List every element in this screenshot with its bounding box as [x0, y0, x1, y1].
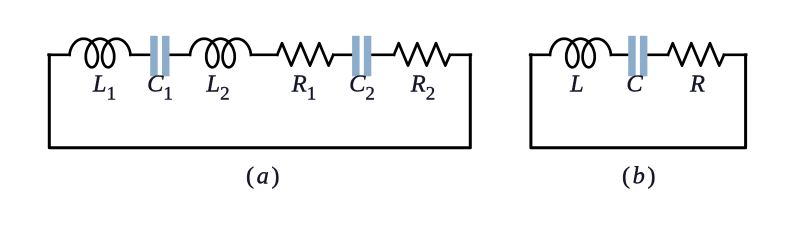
svg-text:(a): (a)	[246, 163, 282, 190]
resistor R2 zigzag	[394, 43, 450, 65]
wire R1 to C2	[333, 53, 353, 56]
svg-text:L: L	[569, 71, 584, 98]
wire R to corner	[724, 53, 746, 56]
svg-text:R1: R1	[291, 71, 316, 105]
wire L to C	[611, 53, 630, 56]
svg-text:(b): (b)	[622, 163, 658, 190]
svg-text:R2: R2	[410, 71, 435, 105]
capacitor C plates (b)	[628, 36, 636, 77]
capacitor C2 plates	[352, 36, 360, 77]
svg-text:L2: L2	[205, 71, 229, 105]
wire L2 to R1	[251, 53, 277, 56]
wire C2 to R2	[370, 53, 394, 56]
resistor R zigzag	[668, 43, 724, 65]
wire L1 to C1	[131, 53, 152, 56]
capacitor C1 plates	[150, 36, 158, 77]
inductor L2	[190, 39, 251, 68]
wire C to R	[646, 53, 668, 56]
circuit a outer loop wire	[49, 55, 470, 148]
svg-text:C: C	[626, 71, 643, 98]
wire top-left a	[49, 53, 70, 56]
svg-text:R: R	[689, 71, 705, 98]
wire R2 to corner	[450, 53, 471, 56]
resistor R1 zigzag	[277, 43, 333, 65]
wire C1 to L2	[169, 53, 191, 56]
wire top-left b	[530, 53, 550, 56]
circuit b outer loop wire	[531, 55, 746, 148]
inductor L1	[70, 39, 131, 68]
inductor L	[550, 39, 611, 68]
svg-text:L1: L1	[92, 71, 116, 105]
